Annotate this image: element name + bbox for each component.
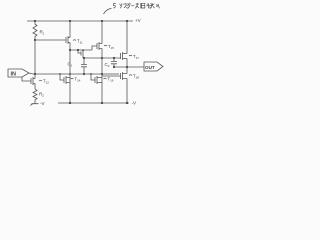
wire lower output gate bbox=[102, 75, 121, 77]
transistor T17 bbox=[120, 53, 122, 59]
wire x70 column through input bus bbox=[69, 50, 71, 103]
node dot gate wire x102 bbox=[101, 57, 103, 59]
svg-text:R1: R1 bbox=[40, 30, 45, 36]
leader T16 bbox=[104, 77, 107, 80]
wire bottom -V rail bbox=[58, 102, 129, 104]
leader T12 bbox=[39, 79, 42, 82]
wire rail to T17 drain bbox=[126, 21, 128, 54]
node dot C2 tap bbox=[113, 57, 115, 59]
capacitor C1 bbox=[83, 58, 85, 64]
node dot OUT-T1718 bbox=[126, 66, 128, 68]
svg-text:IN: IN bbox=[11, 72, 17, 78]
wire T18 source to bottom rail bbox=[126, 79, 128, 104]
node dot x102 on input bus bbox=[101, 73, 103, 75]
transistor T16 bbox=[94, 77, 96, 83]
svg-text:OUT: OUT bbox=[145, 65, 155, 70]
node dot rail-R1 bbox=[34, 20, 36, 22]
wire T15 source down bbox=[101, 49, 103, 104]
node A resistor bottom bbox=[34, 39, 36, 41]
transistor T16 gate tap bbox=[90, 73, 92, 75]
transistor T11 bbox=[65, 37, 67, 43]
node dot rail-T15 column bbox=[101, 20, 103, 22]
leader T11 bbox=[73, 39, 76, 42]
terminal -V at R2 bbox=[30, 104, 38, 106]
svg-text:R2: R2 bbox=[39, 92, 44, 98]
svg-text:T11: T11 bbox=[77, 39, 83, 45]
svg-text:+V: +V bbox=[135, 18, 141, 23]
leader T17 bbox=[129, 54, 132, 57]
transistor T14 bbox=[63, 77, 65, 83]
transistor T14 gate tap bbox=[59, 73, 61, 75]
node dot rail-T17 column bbox=[126, 20, 128, 22]
svg-text:-V: -V bbox=[40, 101, 45, 106]
resistor R1 bbox=[33, 21, 37, 40]
svg-text:C2: C2 bbox=[105, 62, 110, 68]
svg-text:T18: T18 bbox=[133, 74, 139, 80]
svg-text:T16: T16 bbox=[108, 77, 114, 83]
wire gate-drive node bbox=[84, 57, 121, 59]
wire input bus bbox=[29, 73, 119, 74]
transistor T18 bbox=[120, 73, 122, 79]
node dot IN-nodeA bbox=[34, 73, 36, 75]
node dot bottom x102 bbox=[101, 102, 103, 104]
wire top +V rail bbox=[27, 20, 133, 22]
node dot T13 top bbox=[82, 49, 84, 51]
wire node A to T11 gate bbox=[35, 39, 66, 41]
node dot C1 bottom on input bus bbox=[83, 73, 85, 75]
svg-text:T15: T15 bbox=[108, 44, 114, 50]
wire rail to T11 drain bbox=[69, 21, 71, 38]
wire T18 drain to OUT bus bbox=[126, 67, 128, 74]
leader T14 bbox=[71, 77, 74, 80]
wire node A down to input bus bbox=[34, 40, 36, 74]
wire T17 source to OUT bus bbox=[126, 59, 128, 68]
node dot bus-T11 bbox=[69, 49, 71, 51]
transistor T12 bbox=[30, 78, 32, 84]
title annotation 5 inverter circuit bbox=[113, 3, 159, 8]
OUT pad bbox=[144, 62, 163, 71]
capacitor C2 bbox=[113, 58, 115, 61]
node dot bus-T13 gate tap bbox=[77, 49, 79, 51]
node dot C1 top bbox=[83, 57, 85, 59]
wire T11 source to bus bbox=[69, 43, 71, 51]
svg-text:-V: -V bbox=[132, 101, 137, 106]
transistor T12 gate tap bbox=[22, 77, 31, 81]
svg-text:T14: T14 bbox=[75, 77, 81, 83]
transistor T13 bbox=[78, 50, 81, 53]
node dot C2 bottom bbox=[113, 66, 115, 68]
wire mid bus bbox=[70, 46, 97, 50]
node dot bottom x127 bbox=[126, 102, 128, 104]
leader of title annotation bbox=[104, 9, 112, 15]
wire rail to T15 drain bbox=[101, 21, 103, 44]
leader T18 bbox=[129, 74, 132, 77]
svg-text:C1: C1 bbox=[68, 62, 73, 68]
node dot bottom x70 bbox=[69, 102, 71, 104]
transistor T15 bbox=[96, 43, 98, 49]
resistor R2 bbox=[33, 89, 37, 104]
wire OUT bus bbox=[114, 66, 144, 68]
svg-text:T12: T12 bbox=[43, 79, 49, 85]
leader T15 bbox=[104, 44, 107, 47]
svg-text:T17: T17 bbox=[133, 54, 139, 60]
node dot rail-T11 column bbox=[69, 20, 71, 22]
IN pad bbox=[8, 69, 29, 77]
